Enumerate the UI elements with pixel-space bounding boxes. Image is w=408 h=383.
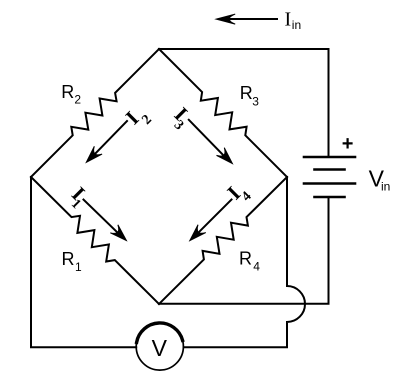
svg-text:R: R [62,249,75,269]
svg-text:R: R [239,249,252,269]
svg-text:in: in [381,180,390,194]
svg-text:R: R [240,83,253,103]
svg-text:+: + [342,133,354,155]
svg-text:2: 2 [74,93,81,107]
svg-text:4: 4 [253,260,260,274]
svg-text:in: in [292,18,301,32]
svg-text:V: V [152,335,168,361]
svg-text:1: 1 [75,260,82,274]
svg-text:R: R [61,82,74,102]
svg-text:I: I [285,9,292,31]
svg-text:3: 3 [252,94,259,108]
